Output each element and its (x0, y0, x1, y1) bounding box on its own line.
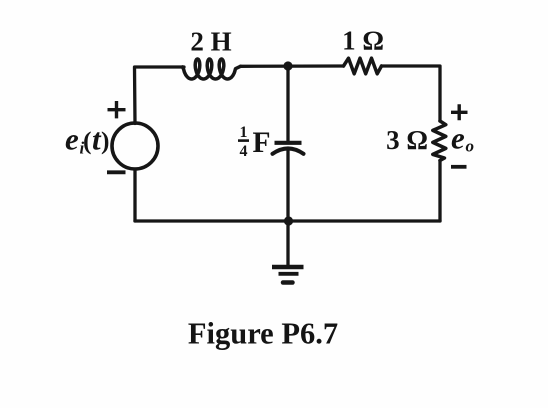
svg-text:3 Ω: 3 Ω (386, 125, 428, 155)
node A junction dot (283, 61, 292, 70)
label: output eo (451, 121, 474, 156)
wire: top right corner down to 3-ohm resistor (382, 66, 441, 121)
capacitor C1 top plate (275, 141, 302, 145)
svg-text:o: o (466, 137, 475, 156)
wire: left branch bottom (source to bottom-left corner) (133, 169, 136, 221)
voltage source ei(t) circle (112, 123, 158, 169)
wire: bottom rail (135, 219, 440, 222)
capacitor C1 bottom curved plate (273, 148, 304, 153)
svg-text:e: e (65, 122, 79, 157)
wire: ground stub (286, 221, 289, 266)
wire: capacitor top lead from node A (286, 66, 289, 141)
label: source plus sign (108, 101, 126, 118)
svg-text:Figure P6.7: Figure P6.7 (188, 317, 338, 351)
resistor R2 3-ohm vertical zigzag (433, 121, 446, 161)
label: source ei(t) (65, 122, 110, 158)
label: output minus sign (451, 165, 467, 169)
svg-text:(: ( (83, 126, 92, 155)
svg-text:1 Ω: 1 Ω (342, 26, 384, 56)
wire: right branch bottom (3-ohm to bottom-right corner) (438, 161, 441, 222)
svg-text:): ) (101, 126, 110, 155)
wire: top middle (inductor to 1-ohm resistor, through node A) (241, 64, 344, 68)
ground symbol bars (272, 265, 304, 270)
label: source minus sign (107, 170, 126, 174)
resistor R1 1-ohm zigzag (344, 58, 382, 74)
svg-text:2 H: 2 H (190, 27, 231, 57)
wire: left branch top (source to top-left corner to inductor) (135, 67, 185, 124)
label: 1/4 F capacitor value (238, 124, 271, 160)
svg-text:e: e (451, 121, 465, 156)
svg-text:1: 1 (240, 124, 248, 141)
svg-text:F: F (253, 127, 271, 159)
wire: capacitor bottom lead to node B (286, 151, 289, 221)
label: output plus sign (451, 104, 468, 120)
node B junction dot (284, 216, 293, 225)
svg-text:4: 4 (240, 143, 248, 160)
inductor L1 coil (183, 59, 241, 79)
